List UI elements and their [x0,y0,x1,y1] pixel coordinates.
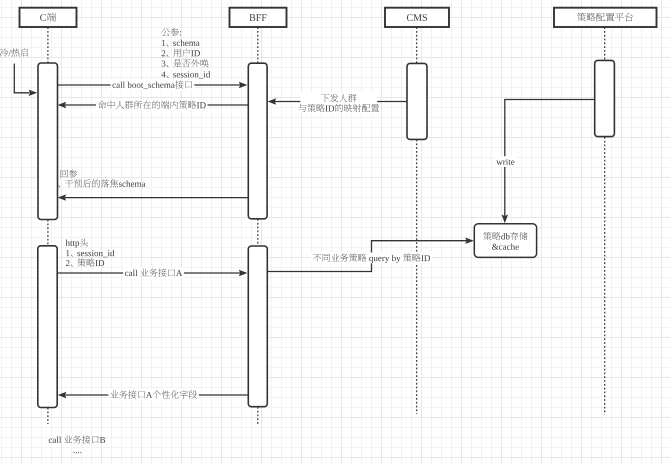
label 、干预后的落焦schema [58,179,146,187]
activation bar BFF #2 [248,246,267,407]
arrow 业务接口A个性化字段 [58,389,248,400]
actor box BFF [230,8,287,27]
label call 业务接口B [49,435,105,443]
arrow 干预后的落焦schema [58,194,248,200]
lifeline C端 [47,27,49,424]
arrow call 业务接口A [57,267,247,278]
actor box 策略配置平台 [554,8,657,27]
actor box C端 [20,8,77,27]
arrow 命中人群所在的端内策略ID [58,100,249,111]
activation bar CMS [407,63,427,139]
lifeline CMS [416,27,418,414]
note 公参 list [161,28,210,79]
label .... [74,452,82,453]
activation bar 策略配置平台 [595,60,615,136]
arrow 下发人群与策略ID的映射配置 [268,93,407,114]
actor box CMS [385,8,449,27]
note http头 list [66,238,115,266]
activation bar C端 #2 [38,246,57,408]
lifeline 策略配置平台 [604,27,606,414]
arrow query by 策略ID [267,238,474,272]
activation bar BFF #1 [248,63,267,219]
lifeline BFF [257,27,259,425]
label 回参 [61,170,78,178]
arrow 冷/热启 start [14,64,37,97]
box 策略db存储&cache [474,224,536,258]
arrow write [495,100,595,224]
activation bar C端 #1 [38,63,58,220]
arrow call boot_schema接口 [58,79,248,90]
label 冷/热启 [0,48,28,56]
